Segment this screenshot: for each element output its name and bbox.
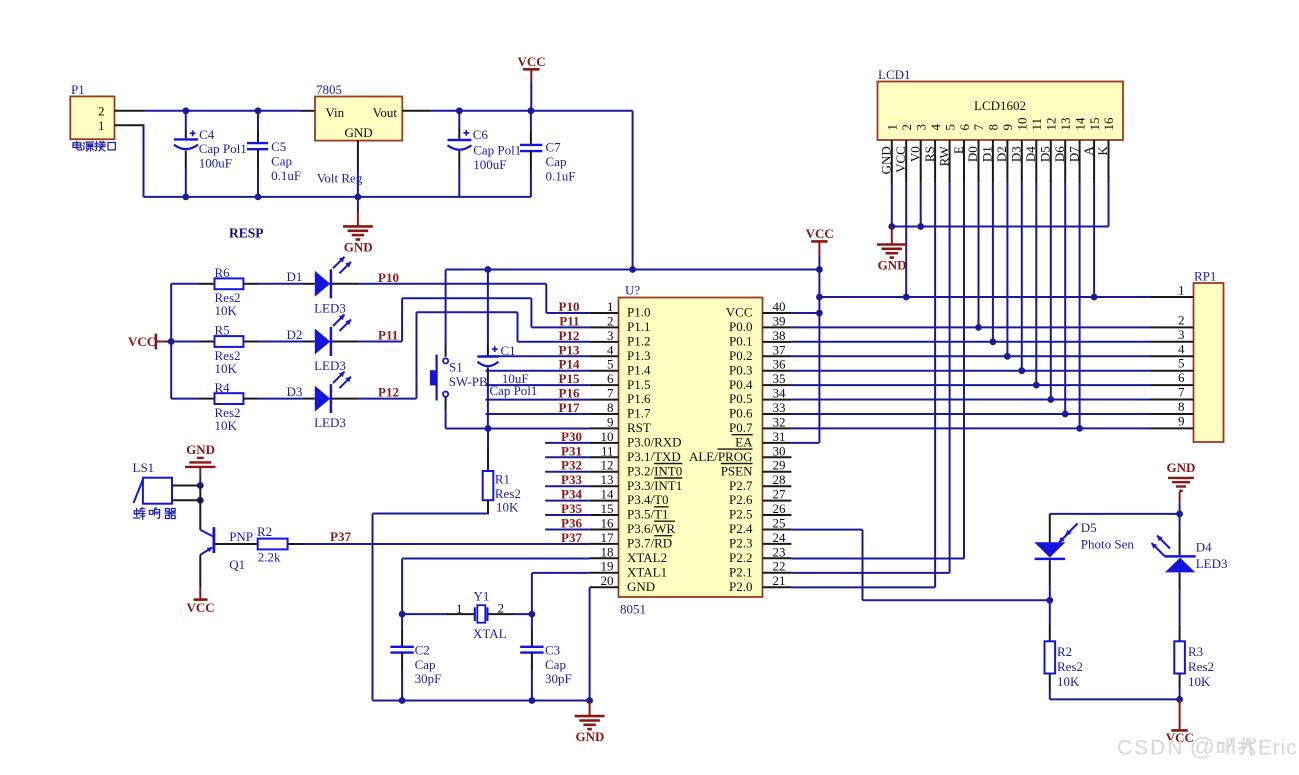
svg-text:P0.4: P0.4: [729, 377, 753, 392]
svg-text:RS: RS: [922, 146, 937, 162]
svg-text:D6: D6: [1052, 146, 1067, 162]
svg-text:Volt Reg: Volt Reg: [317, 171, 363, 186]
svg-text:R2: R2: [257, 524, 272, 539]
svg-text:9: 9: [1178, 413, 1185, 428]
svg-text:23: 23: [773, 544, 786, 559]
svg-text:P2.5: P2.5: [729, 507, 752, 522]
svg-text:P3.3/INT1: P3.3/INT1: [627, 478, 682, 493]
svg-text:CSDN: CSDN: [1117, 737, 1185, 760]
svg-text:31: 31: [773, 429, 786, 444]
svg-text:P16: P16: [559, 386, 580, 401]
svg-text:2: 2: [498, 601, 505, 616]
svg-text:P14: P14: [559, 357, 580, 372]
svg-text:Cap: Cap: [271, 154, 292, 169]
svg-text:10: 10: [601, 429, 614, 444]
svg-text:3: 3: [1178, 327, 1185, 342]
svg-text:Cap Pol1: Cap Pol1: [199, 141, 247, 156]
svg-text:100uF: 100uF: [473, 157, 506, 172]
svg-text:Vin: Vin: [325, 105, 344, 120]
svg-text:30pF: 30pF: [545, 671, 572, 686]
svg-text:26: 26: [773, 501, 787, 516]
svg-text:29: 29: [773, 458, 786, 473]
svg-text:GND: GND: [345, 125, 373, 140]
svg-text:LED3: LED3: [314, 300, 346, 315]
svg-text:D5: D5: [1038, 146, 1053, 162]
svg-text:LS1: LS1: [133, 460, 155, 475]
svg-text:P37: P37: [330, 529, 351, 544]
svg-text:100uF: 100uF: [199, 156, 232, 171]
svg-text:10K: 10K: [496, 500, 519, 515]
svg-text:27: 27: [773, 487, 787, 502]
svg-text:Eric: Eric: [1258, 737, 1297, 760]
svg-text:36: 36: [773, 357, 787, 372]
svg-text:D4: D4: [1196, 539, 1212, 554]
svg-text:P3.1/TXD: P3.1/TXD: [627, 449, 681, 464]
svg-text:Cap: Cap: [415, 657, 436, 672]
svg-text:P17: P17: [559, 400, 580, 415]
svg-text:P3.0/RXD: P3.0/RXD: [627, 435, 682, 450]
svg-text:35: 35: [773, 371, 786, 386]
svg-text:13: 13: [1058, 118, 1073, 131]
svg-text:P15: P15: [559, 371, 580, 386]
svg-text:2: 2: [607, 313, 614, 328]
svg-text:P12: P12: [559, 328, 580, 343]
svg-text:Cap: Cap: [546, 154, 567, 169]
svg-text:P1.4: P1.4: [627, 362, 651, 377]
svg-text:R4: R4: [215, 380, 231, 395]
svg-text:P3.7/RD: P3.7/RD: [627, 536, 672, 551]
svg-text:20: 20: [601, 573, 614, 588]
svg-text:VCC: VCC: [726, 305, 753, 320]
svg-text:XTAL1: XTAL1: [627, 564, 667, 579]
svg-text:R1: R1: [495, 471, 510, 486]
svg-text:LED3: LED3: [1196, 556, 1228, 571]
svg-text:P1.5: P1.5: [627, 377, 650, 392]
svg-text:D5: D5: [1081, 520, 1097, 535]
svg-text:P0.7: P0.7: [729, 420, 753, 435]
svg-text:P37: P37: [561, 530, 582, 545]
svg-text:10K: 10K: [215, 361, 238, 376]
svg-text:2: 2: [1178, 312, 1185, 327]
svg-text:P12: P12: [378, 385, 399, 400]
svg-text:PSEN: PSEN: [721, 463, 753, 478]
svg-text:8: 8: [1178, 399, 1185, 414]
svg-text:P10: P10: [559, 299, 580, 314]
svg-text:C7: C7: [546, 140, 562, 155]
svg-text:7: 7: [971, 124, 986, 131]
svg-text:P2.0: P2.0: [729, 579, 752, 594]
svg-text:1: 1: [1178, 283, 1185, 298]
svg-text:10: 10: [1015, 118, 1030, 131]
svg-text:16: 16: [1101, 117, 1116, 131]
svg-text:RST: RST: [627, 420, 651, 435]
svg-text:R3: R3: [1188, 644, 1203, 659]
svg-text:LCD1: LCD1: [878, 67, 911, 82]
svg-text:Cap Pol1: Cap Pol1: [473, 143, 521, 158]
svg-text:11: 11: [601, 443, 614, 458]
svg-text:A: A: [1081, 146, 1096, 156]
svg-text:D3: D3: [287, 384, 303, 399]
svg-text:13: 13: [601, 472, 614, 487]
svg-text:2: 2: [98, 103, 105, 118]
svg-text:RESP: RESP: [229, 225, 264, 240]
svg-text:D1: D1: [980, 146, 995, 162]
svg-text:6: 6: [1178, 370, 1185, 385]
svg-text:4: 4: [928, 124, 943, 131]
svg-text:1: 1: [607, 299, 614, 314]
svg-text:3: 3: [913, 124, 928, 131]
svg-text:Q1: Q1: [229, 557, 245, 572]
svg-text:P0.0: P0.0: [729, 319, 752, 334]
svg-text:8051: 8051: [620, 602, 646, 617]
svg-text:GND: GND: [879, 146, 894, 174]
svg-text:P34: P34: [561, 487, 582, 502]
svg-text:D0: D0: [965, 146, 980, 162]
svg-text:Res2: Res2: [1188, 659, 1214, 674]
svg-text:8: 8: [607, 400, 614, 415]
svg-text:10K: 10K: [215, 418, 238, 433]
svg-text:C6: C6: [473, 127, 489, 142]
svg-text:0.1uF: 0.1uF: [546, 169, 576, 184]
svg-text:Photo Sen: Photo Sen: [1081, 537, 1135, 552]
svg-text:P11: P11: [559, 313, 579, 328]
svg-text:P0.6: P0.6: [729, 406, 753, 421]
svg-text:17: 17: [601, 530, 615, 545]
svg-text:25: 25: [773, 516, 786, 531]
svg-text:39: 39: [773, 313, 786, 328]
svg-text:P3.6/WR: P3.6/WR: [627, 521, 675, 536]
svg-text:15: 15: [601, 501, 614, 516]
svg-text:P1: P1: [71, 82, 85, 97]
svg-text:K: K: [1095, 146, 1110, 156]
svg-text:Res2: Res2: [1057, 659, 1083, 674]
svg-text:Res2: Res2: [495, 486, 521, 501]
svg-text:R5: R5: [215, 323, 230, 338]
svg-text:8: 8: [986, 124, 1001, 131]
svg-text:VCC: VCC: [806, 226, 834, 241]
svg-text:P1.2: P1.2: [627, 334, 650, 349]
svg-text:P0.2: P0.2: [729, 348, 752, 363]
svg-text:RP1: RP1: [1194, 269, 1216, 284]
svg-text:19: 19: [601, 559, 614, 574]
svg-text:P31: P31: [561, 443, 582, 458]
svg-text:P2.7: P2.7: [729, 478, 753, 493]
svg-text:GND: GND: [344, 239, 373, 254]
svg-text:V0: V0: [907, 146, 922, 162]
svg-text:30pF: 30pF: [415, 671, 442, 686]
svg-text:4: 4: [1178, 341, 1185, 356]
svg-text:15: 15: [1087, 118, 1102, 131]
svg-text:P0.5: P0.5: [729, 391, 752, 406]
svg-text:18: 18: [601, 544, 614, 559]
svg-text:C3: C3: [545, 642, 560, 657]
svg-text:21: 21: [773, 573, 786, 588]
svg-text:SW-PB: SW-PB: [449, 374, 488, 389]
svg-text:30: 30: [773, 443, 786, 458]
svg-text:P10: P10: [378, 270, 399, 285]
svg-text:XTAL2: XTAL2: [627, 550, 667, 565]
svg-text:7: 7: [607, 386, 614, 401]
svg-text:VCC: VCC: [893, 146, 908, 173]
svg-text:11: 11: [1029, 118, 1044, 131]
svg-text:GND: GND: [878, 257, 907, 272]
svg-text:P30: P30: [561, 429, 582, 444]
svg-text:1: 1: [456, 601, 463, 616]
svg-text:D7: D7: [1066, 146, 1081, 162]
svg-text:R6: R6: [215, 265, 231, 280]
svg-text:VCC: VCC: [128, 334, 156, 349]
svg-text:1: 1: [885, 124, 900, 131]
svg-text:2: 2: [899, 124, 914, 131]
svg-text:D4: D4: [1023, 146, 1038, 162]
svg-text:14: 14: [601, 487, 615, 502]
svg-text:U?: U?: [625, 283, 640, 298]
svg-text:22: 22: [773, 559, 786, 574]
svg-text:EA: EA: [735, 435, 753, 450]
svg-text:R2: R2: [1057, 644, 1072, 659]
svg-text:P3.4/T0: P3.4/T0: [627, 492, 669, 507]
svg-text:37: 37: [773, 342, 787, 357]
svg-text:38: 38: [773, 328, 786, 343]
svg-text:PNP: PNP: [229, 529, 253, 544]
svg-text:P1.6: P1.6: [627, 391, 651, 406]
svg-text:GND: GND: [575, 729, 604, 744]
svg-text:P11: P11: [378, 328, 398, 343]
svg-text:10K: 10K: [1057, 674, 1080, 689]
svg-text:GND: GND: [186, 442, 215, 457]
svg-text:3: 3: [607, 328, 614, 343]
svg-text:24: 24: [773, 530, 787, 545]
svg-text:P32: P32: [561, 458, 582, 473]
svg-text:P1.0: P1.0: [627, 305, 650, 320]
svg-text:S1: S1: [449, 359, 463, 374]
svg-text:6: 6: [957, 124, 972, 131]
svg-text:1: 1: [98, 118, 105, 133]
svg-text:P2.2: P2.2: [729, 550, 752, 565]
svg-text:40: 40: [773, 299, 786, 314]
svg-text:14: 14: [1072, 117, 1087, 131]
svg-text:28: 28: [773, 472, 786, 487]
svg-text:@: @: [1190, 733, 1215, 761]
svg-text:P2.6: P2.6: [729, 492, 753, 507]
svg-text:P2.3: P2.3: [729, 536, 752, 551]
svg-text:10K: 10K: [1188, 674, 1211, 689]
svg-text:P1.3: P1.3: [627, 348, 650, 363]
svg-text:16: 16: [601, 516, 615, 531]
svg-text:0.1uF: 0.1uF: [271, 168, 301, 183]
svg-text:P35: P35: [561, 501, 582, 516]
svg-text:P1.1: P1.1: [627, 319, 650, 334]
svg-text:9: 9: [607, 414, 614, 429]
svg-text:5: 5: [942, 124, 957, 131]
svg-text:Cap: Cap: [545, 657, 566, 672]
svg-text:P0.3: P0.3: [729, 362, 752, 377]
svg-text:P0.1: P0.1: [729, 334, 752, 349]
svg-text:5: 5: [1178, 356, 1185, 371]
svg-text:P33: P33: [561, 472, 582, 487]
svg-text:33: 33: [773, 400, 786, 415]
svg-text:10K: 10K: [215, 303, 238, 318]
svg-text:9: 9: [1000, 124, 1015, 131]
svg-text:4: 4: [607, 342, 614, 357]
svg-text:6: 6: [607, 371, 614, 386]
svg-text:ALE/PROG: ALE/PROG: [689, 449, 753, 464]
svg-text:P3.2/INT0: P3.2/INT0: [627, 463, 682, 478]
svg-text:34: 34: [773, 386, 787, 401]
svg-text:D1: D1: [287, 269, 303, 284]
svg-text:5: 5: [607, 357, 614, 372]
svg-text:P3.5/T1: P3.5/T1: [627, 507, 669, 522]
svg-text:VCC: VCC: [518, 54, 546, 69]
svg-text:XTAL: XTAL: [473, 626, 507, 641]
svg-text:7805: 7805: [316, 82, 342, 97]
svg-text:P2.4: P2.4: [729, 521, 753, 536]
svg-text:LCD1602: LCD1602: [974, 98, 1026, 113]
svg-text:P36: P36: [561, 516, 582, 531]
svg-text:12: 12: [601, 458, 614, 473]
svg-text:P1.7: P1.7: [627, 406, 651, 421]
svg-text:D3: D3: [1009, 146, 1024, 162]
svg-text:D2: D2: [994, 146, 1009, 162]
svg-text:GND: GND: [1167, 460, 1196, 475]
svg-text:LED3: LED3: [314, 358, 346, 373]
svg-text:P13: P13: [559, 342, 580, 357]
svg-text:P2.1: P2.1: [729, 564, 752, 579]
svg-text:GND: GND: [627, 579, 655, 594]
svg-text:C5: C5: [271, 139, 286, 154]
svg-text:7: 7: [1178, 385, 1185, 400]
svg-text:LED3: LED3: [314, 415, 346, 430]
svg-text:RW: RW: [936, 145, 951, 166]
svg-text:2.2k: 2.2k: [258, 549, 281, 564]
svg-text:E: E: [951, 146, 966, 154]
svg-text:Vout: Vout: [373, 105, 398, 120]
svg-text:32: 32: [773, 414, 786, 429]
svg-text:C2: C2: [415, 642, 430, 657]
svg-text:12: 12: [1044, 118, 1059, 131]
svg-text:VCC: VCC: [187, 600, 215, 615]
svg-text:Y1: Y1: [474, 588, 490, 603]
svg-text:C4: C4: [199, 127, 215, 142]
svg-text:D2: D2: [287, 327, 303, 342]
